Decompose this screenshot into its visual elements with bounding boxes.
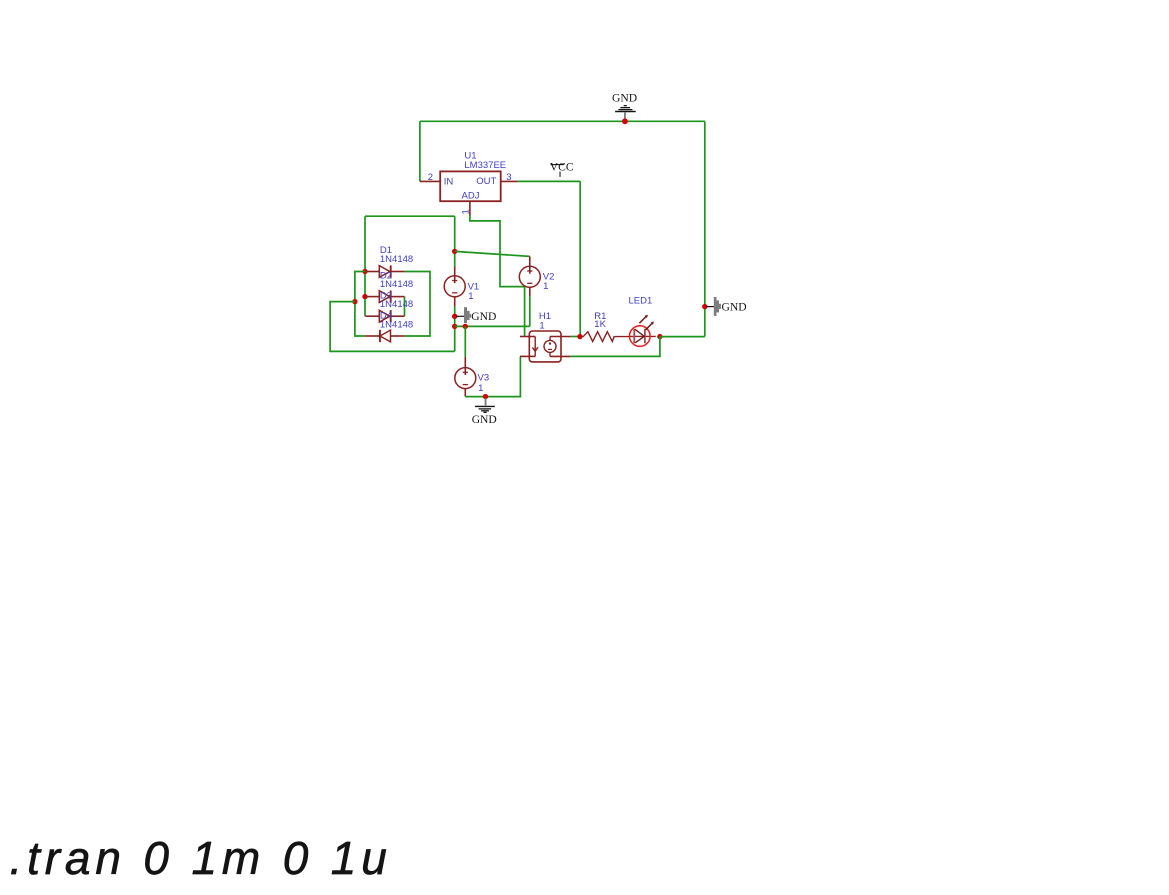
wire anode bus vertical — [364, 216, 366, 316]
wire diagonal to V2 — [455, 251, 530, 256]
wire top ground rail — [420, 120, 705, 122]
svg-text:1: 1 — [468, 291, 473, 302]
wire diode block top — [365, 215, 455, 217]
svg-text:2: 2 — [428, 172, 433, 183]
node V1 minus — [452, 314, 457, 319]
node ground bus left — [452, 324, 457, 329]
node D1 anode — [362, 269, 367, 274]
svg-text:ADJ: ADJ — [462, 191, 480, 202]
wire U1 out to VCC rail — [518, 180, 581, 182]
svg-text:1: 1 — [460, 209, 471, 214]
ground symbol GND mid — [456, 307, 496, 323]
svg-text:1N4148: 1N4148 — [380, 254, 413, 265]
wire D1 anode to D4 loop — [355, 272, 365, 337]
svg-text:GND: GND — [612, 92, 637, 105]
voltage source V1 — [444, 267, 465, 307]
wire D1 cathode to D4 anode — [404, 272, 430, 337]
wire V3 bottom to H1 — [465, 357, 520, 397]
svg-text:1: 1 — [478, 383, 483, 394]
svg-text:LM337EE: LM337EE — [464, 160, 506, 171]
svg-text:1: 1 — [539, 321, 544, 332]
resistor R1 — [580, 332, 630, 342]
ccvs H1 box — [529, 331, 561, 362]
voltage source V2 — [519, 256, 540, 296]
wire V2 bottom drop — [529, 296, 531, 326]
U1 pin 3 stub — [501, 180, 518, 182]
regulator U1 box — [440, 171, 501, 201]
wire U1 input drop — [419, 121, 421, 181]
wire right vertical rail — [704, 121, 706, 336]
svg-text:1: 1 — [543, 281, 548, 292]
node top rail ground junction — [622, 118, 628, 124]
U1 ADJ pin stub — [469, 201, 471, 216]
ground symbol GND right — [707, 297, 747, 316]
wire H1 bottom to LED node — [571, 337, 660, 357]
wire ground bus — [455, 325, 530, 327]
svg-text:GND: GND — [722, 300, 747, 313]
node right rail ground tap — [702, 304, 707, 309]
svg-text:.tran 0 1m 0 1u: .tran 0 1m 0 1u — [10, 832, 392, 884]
svg-text:OUT: OUT — [476, 176, 496, 187]
diode D3 — [365, 310, 404, 322]
wire V1 top vertical — [454, 216, 456, 266]
svg-text:1N4148: 1N4148 — [380, 279, 413, 290]
svg-text:IN: IN — [444, 177, 454, 188]
wire H1 out to R1 node — [571, 336, 580, 338]
wire V1 bottom vertical — [454, 306, 456, 351]
node diode block left — [352, 299, 357, 304]
H1 pin stubs — [520, 337, 571, 357]
node V3 tap — [463, 324, 468, 329]
svg-text:GND: GND — [472, 413, 497, 426]
node R1 left junction — [577, 334, 582, 339]
led LED1 — [630, 315, 656, 347]
ground symbol GND bottom — [472, 398, 497, 426]
H1 control branch arrow — [532, 337, 538, 357]
node LED cathode junction — [657, 334, 662, 339]
svg-text:LED1: LED1 — [629, 295, 653, 306]
wire LED to right rail — [660, 336, 705, 338]
wire far left loop — [330, 302, 455, 352]
ground symbol GND top — [612, 92, 637, 121]
svg-text:1K: 1K — [594, 319, 606, 330]
wire ADJ to H1 — [470, 215, 525, 336]
wire D2 cathode to D3 cathode — [404, 297, 406, 317]
wire VCC drop to R1 — [579, 181, 581, 336]
svg-text:GND: GND — [471, 310, 496, 323]
node bottom ground junction — [483, 394, 488, 399]
wire V3 top — [464, 326, 466, 356]
power flag VCC — [550, 160, 574, 177]
node D2 anode — [362, 294, 367, 299]
svg-text:VCC: VCC — [550, 160, 574, 173]
svg-text:1N4148: 1N4148 — [380, 299, 413, 310]
svg-text:1N4148: 1N4148 — [380, 319, 413, 330]
node V1 top tap — [452, 249, 457, 254]
diode D1 — [365, 265, 405, 277]
diode D2 — [365, 291, 405, 303]
voltage source V3 — [455, 357, 476, 397]
svg-text:3: 3 — [506, 172, 511, 183]
U1 pin 2 stub — [420, 180, 440, 182]
H1 source circle — [544, 337, 556, 357]
diode D4 — [365, 330, 404, 342]
